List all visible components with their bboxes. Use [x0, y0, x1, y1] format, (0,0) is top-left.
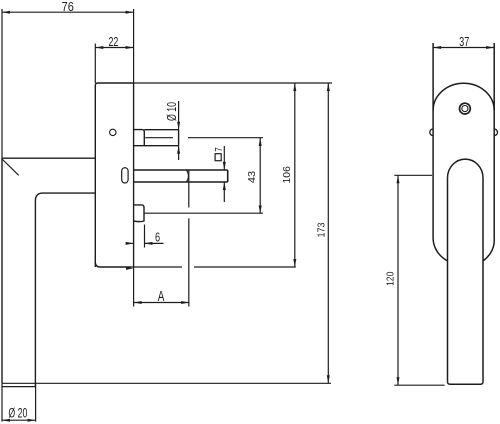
rose cover bottom arc left — [433, 238, 447, 261]
screw head inner circle — [462, 106, 468, 112]
lever corner seam diagonal — [2, 159, 19, 176]
grip outer edge — [1, 158, 3, 383]
svg-text:7: 7 — [213, 147, 225, 152]
rose cover outer left side — [432, 43, 434, 238]
dimension 6 — [126, 242, 164, 245]
lever neck top edge — [2, 157, 95, 159]
dimension A — [134, 301, 190, 304]
extension line x=95.3 above plate — [94, 44, 96, 84]
grip end outer line + extension to 173 dim — [2, 382, 331, 384]
svg-text:173: 173 — [315, 222, 327, 237]
dimension square 7 — [223, 146, 226, 202]
tab extension line down to 6 dim — [144, 225, 146, 248]
svg-text:22: 22 — [108, 34, 118, 49]
rose cover top dome arc — [433, 83, 494, 110]
bar break curve — [186, 170, 188, 182]
grip bar front view — [448, 159, 484, 384]
square spindle bar 7mm — [134, 170, 228, 182]
arrowhead at plate bottom right corner — [126, 267, 134, 270]
svg-text:76: 76 — [62, 0, 74, 14]
dimension text square7 — [215, 154, 221, 161]
svg-text:37: 37 — [459, 34, 469, 49]
svg-text:A: A — [158, 288, 165, 305]
dimension 76 — [2, 11, 134, 14]
dimension 22 — [95, 46, 133, 49]
extension line spindle axis to 43 dim — [188, 137, 263, 139]
spindle neck collar — [134, 130, 145, 146]
svg-text:Ø 10: Ø 10 — [164, 102, 179, 121]
dimension 173 — [327, 83, 330, 383]
extension line left (x=2, also grip outer edge extension) — [1, 9, 3, 158]
dimension Ø10 — [177, 101, 180, 160]
svg-text:106: 106 — [281, 166, 293, 183]
dimension 106 — [293, 83, 296, 267]
svg-text:Ø 20: Ø 20 — [8, 406, 27, 421]
dimension Ø20 — [2, 419, 36, 422]
plate top extension line to 173/106 dims — [134, 82, 332, 84]
dimension 120 — [397, 175, 400, 385]
rose plate (side view) — [95, 83, 133, 267]
rose cover outer right side — [493, 43, 495, 238]
plate bottom extension line to 106 dim — [131, 266, 182, 268]
plate right edge extension below plate to A dim — [133, 267, 135, 307]
grip end inner line — [2, 386, 36, 388]
tab extension line to 43 dim — [144, 212, 263, 214]
120 bottom extension line — [394, 384, 444, 386]
cylinder middle line — [145, 137, 173, 139]
dimension 43 — [259, 138, 262, 214]
grip edge extension lines down to Ø20 dim — [1, 383, 3, 421]
rose cover bottom arc right — [483, 238, 494, 261]
screw hole circle on plate — [110, 129, 116, 135]
dimension 37 — [433, 46, 494, 49]
lever neck inner edge with corner arc — [35, 193, 95, 387]
extension line x=133.6 from top dim to plate — [133, 9, 135, 83]
screw head outer circle — [460, 103, 471, 114]
cylinder pin Ø10 — [144, 130, 178, 146]
side clip bump right — [494, 129, 497, 136]
svg-text:120: 120 — [385, 271, 397, 286]
svg-text:6: 6 — [155, 229, 160, 244]
bar break extension line down to A dim — [188, 170, 190, 208]
oblong slot on plate — [122, 168, 128, 183]
side clip bump left — [430, 129, 433, 136]
fixing tab 6mm — [134, 205, 144, 222]
svg-text:43: 43 — [246, 171, 258, 183]
120 top extension line — [394, 174, 432, 176]
